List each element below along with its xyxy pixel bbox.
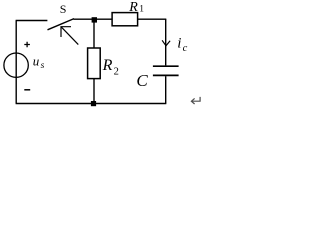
wire: R2 branch vertical upper [93, 20, 95, 48]
svg-text:u: u [33, 54, 40, 69]
svg-text:i: i [177, 36, 181, 52]
current ic arrowhead on wire [162, 40, 170, 46]
voltage source us circle [4, 53, 28, 77]
wire: top horizontal from switch to right corner [74, 18, 167, 20]
switch arrow shaft [61, 27, 78, 45]
wire: R2 branch vertical lower [93, 79, 95, 104]
resistor R1 body [112, 13, 138, 26]
wire: right vertical branch upper (to capacitor) [165, 19, 167, 65]
wire: left vertical branch through source [15, 21, 17, 104]
wire: right vertical branch lower (capacitor to bottom) [165, 76, 167, 103]
svg-text:s: s [41, 61, 45, 71]
svg-text:2: 2 [114, 67, 119, 78]
capacitor C top plate [153, 65, 179, 67]
svg-text:C: C [136, 71, 148, 90]
plus sign of source [24, 42, 30, 48]
capacitor C bottom plate [153, 74, 179, 76]
wire: top-left horizontal to switch [16, 20, 48, 22]
svg-text:c: c [183, 43, 188, 54]
minus sign of source [24, 89, 30, 91]
junction dot bottom node [91, 101, 96, 106]
svg-text:R: R [128, 0, 138, 15]
switch S blade [48, 19, 75, 30]
svg-text:S: S [60, 2, 67, 16]
junction dot top node [92, 17, 97, 22]
resistor R2 body [88, 48, 101, 79]
switch arrow barbs [61, 27, 71, 37]
wire: bottom horizontal [16, 103, 167, 105]
return mark glyph [191, 97, 200, 104]
svg-text:1: 1 [139, 4, 144, 14]
svg-text:R: R [102, 57, 113, 74]
